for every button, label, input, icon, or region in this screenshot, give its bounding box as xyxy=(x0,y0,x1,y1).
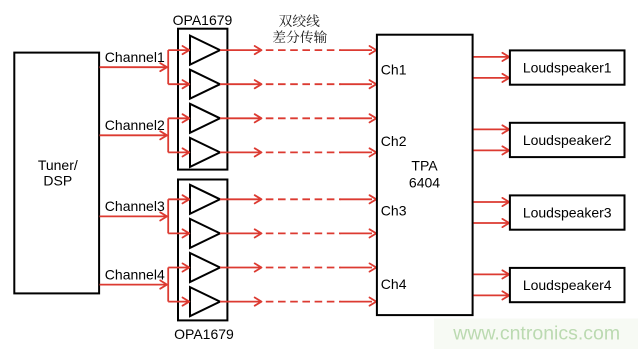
op-amp buffer A2 xyxy=(190,70,220,99)
watermark background tint xyxy=(434,319,638,349)
node Channel3 split (differential) xyxy=(168,195,189,237)
wire TPA6404 Ch4 output - to Loudspeaker4 xyxy=(474,291,510,299)
wire Channel2- into buffer A4 xyxy=(168,151,189,153)
wire Channel3+ into buffer A5 xyxy=(168,198,189,200)
wire TPA6404 Ch4 output + to Loudspeaker4 xyxy=(474,270,510,278)
svg-text:Ch3: Ch3 xyxy=(381,202,407,218)
svg-text:TPA: TPA xyxy=(411,158,438,174)
wire Channel3- into buffer A6 xyxy=(168,232,189,234)
block Loudspeaker1 xyxy=(510,50,625,84)
op-amp buffer A3 xyxy=(190,104,220,133)
block Loudspeaker2 xyxy=(510,123,625,157)
wire Channel1 from Tuner/DSP to splitter xyxy=(100,63,168,71)
block Loudspeaker3 xyxy=(510,195,625,229)
wire differential line 8: buffer A8 to TPA6404 xyxy=(220,298,376,306)
wire Channel2+ into buffer A3 xyxy=(168,117,189,119)
wire Channel3 from Tuner/DSP to splitter xyxy=(100,212,168,220)
op-amp buffer A1 xyxy=(190,36,220,65)
svg-text:Channel2: Channel2 xyxy=(105,117,165,133)
wire Channel4 from Tuner/DSP to splitter xyxy=(100,280,168,288)
wire TPA6404 Ch1 output - to Loudspeaker1 xyxy=(474,74,510,82)
svg-text:Tuner/: Tuner/ xyxy=(38,157,78,173)
op-amp buffer A8 xyxy=(190,287,220,316)
svg-text:Loudspeaker1: Loudspeaker1 xyxy=(523,60,612,76)
wire differential line 7: buffer A7 to TPA6404 xyxy=(220,263,376,271)
svg-text:Channel4: Channel4 xyxy=(105,266,165,282)
svg-text:OPA1679: OPA1679 xyxy=(173,12,233,28)
annotation 差分传输 (differential transmission) xyxy=(273,30,327,43)
node Channel2 split (differential) xyxy=(168,114,189,156)
wire Channel2 from Tuner/DSP to splitter xyxy=(100,131,168,139)
op-amp buffer A6 xyxy=(190,219,220,248)
wire differential line 2: buffer A2 to TPA6404 xyxy=(220,80,376,88)
svg-text:6404: 6404 xyxy=(409,174,440,190)
svg-text:Ch4: Ch4 xyxy=(381,276,407,292)
wire differential line 5: buffer A5 to TPA6404 xyxy=(220,195,376,203)
svg-text:Loudspeaker3: Loudspeaker3 xyxy=(523,205,612,221)
wire differential line 1: buffer A1 to TPA6404 xyxy=(220,46,376,54)
wire Channel4+ into buffer A7 xyxy=(168,267,189,269)
wire differential line 6: buffer A6 to TPA6404 xyxy=(220,229,376,237)
wire TPA6404 Ch1 output + to Loudspeaker1 xyxy=(474,53,510,61)
svg-text:Channel3: Channel3 xyxy=(105,198,165,214)
svg-text:DSP: DSP xyxy=(43,172,72,188)
op-amp IC U2 OPA1679 (bottom quad buffer) xyxy=(178,180,227,321)
wire TPA6404 Ch3 output - to Loudspeaker3 xyxy=(474,219,510,227)
block Tuner/DSP xyxy=(14,53,99,294)
wire differential line 4: buffer A4 to TPA6404 xyxy=(220,148,376,156)
svg-text:Channel1: Channel1 xyxy=(105,49,165,65)
svg-text:Loudspeaker2: Loudspeaker2 xyxy=(523,132,612,148)
op-amp buffer A7 xyxy=(190,253,220,282)
wire differential line 3: buffer A3 to TPA6404 xyxy=(220,114,376,122)
wire TPA6404 Ch3 output + to Loudspeaker3 xyxy=(474,198,510,206)
op-amp buffer A4 xyxy=(190,138,220,167)
svg-text:Ch1: Ch1 xyxy=(381,62,407,78)
wire TPA6404 Ch2 output + to Loudspeaker2 xyxy=(474,125,510,133)
op-amp IC U1 OPA1679 (top quad buffer) xyxy=(178,29,227,170)
wire Channel1+ into buffer A1 xyxy=(168,49,189,51)
node Channel4 split (differential) xyxy=(168,263,189,305)
svg-text:www.cntronics.com: www.cntronics.com xyxy=(452,323,620,345)
svg-text:Ch2: Ch2 xyxy=(381,133,407,149)
svg-text:OPA1679: OPA1679 xyxy=(174,326,234,342)
node Channel1 split (differential) xyxy=(168,46,189,88)
annotation 双绞线 (twisted pair) xyxy=(279,14,319,27)
wire TPA6404 Ch2 output - to Loudspeaker2 xyxy=(474,146,510,154)
wire Channel4- into buffer A8 xyxy=(168,301,189,303)
wire Channel1- into buffer A2 xyxy=(168,83,189,85)
op-amp buffer A5 xyxy=(190,185,220,214)
block Loudspeaker4 xyxy=(510,268,625,302)
amplifier IC U3 TPA6404 xyxy=(377,35,473,315)
svg-text:Loudspeaker4: Loudspeaker4 xyxy=(523,277,612,293)
